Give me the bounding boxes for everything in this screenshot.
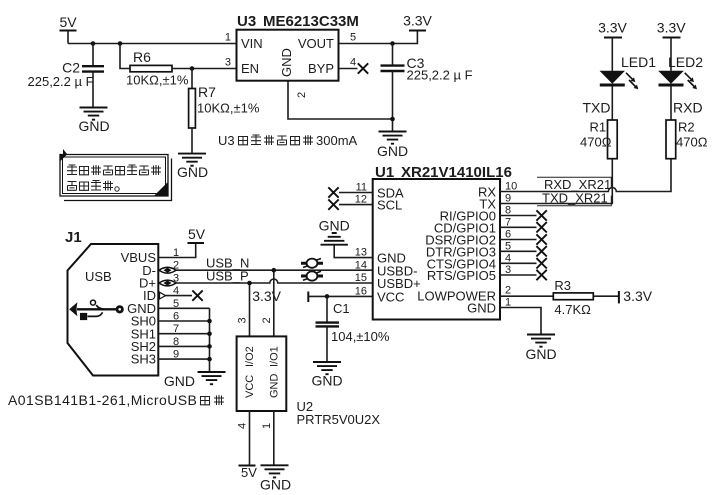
pin names U1 left — [377, 186, 421, 305]
LED LED1 — [600, 54, 657, 89]
power 3.3V (LED1) — [598, 20, 627, 38]
pin names U1 right — [417, 185, 496, 316]
junction SH3 — [207, 357, 212, 362]
wire GND pin13 — [334, 245, 373, 258]
wire LED2 cathode to R2 — [670, 87, 672, 121]
svg-text:3.3V: 3.3V — [252, 288, 281, 304]
pin numbers U1 right — [505, 181, 517, 309]
svg-text:USB: USB — [85, 269, 112, 284]
wire U2 pin2 vertical — [273, 270, 275, 336]
wire U3 pin2 to gnd rail — [288, 81, 393, 119]
svg-text:I/O2: I/O2 — [244, 346, 256, 367]
svg-text:LED1: LED1 — [621, 54, 656, 70]
wire U2 pin3 vertical — [249, 283, 251, 336]
wire R7 upper lead — [191, 69, 193, 89]
svg-text:LED2: LED2 — [668, 54, 703, 70]
svg-text:3.3V: 3.3V — [657, 20, 686, 36]
svg-text:VCC: VCC — [244, 375, 256, 398]
svg-text:J1: J1 — [65, 229, 82, 246]
svg-text:GND: GND — [177, 164, 208, 180]
power 5V (top-left) — [59, 14, 77, 31]
wire LED1 cathode to R1 — [611, 87, 613, 121]
wire C1 upper lead — [326, 296, 328, 321]
resistor R6 — [130, 49, 172, 72]
svg-text:GND: GND — [467, 301, 496, 316]
ground GND (U2) — [260, 465, 291, 492]
capacitor C1 — [316, 301, 350, 326]
wire C2 lower lead — [92, 72, 94, 108]
svg-text:225,2.2 µ F: 225,2.2 µ F — [407, 68, 473, 83]
svg-text:4: 4 — [237, 423, 249, 429]
svg-text:GND: GND — [525, 346, 556, 362]
svg-text:2: 2 — [261, 317, 273, 323]
svg-text:C1: C1 — [333, 301, 350, 316]
svg-text:RTS/GPIO5: RTS/GPIO5 — [427, 268, 496, 283]
wire C3 lower lead — [392, 71, 394, 131]
svg-text:SH3: SH3 — [131, 352, 156, 367]
junction R7 top — [190, 66, 195, 71]
wire C3 upper lead — [392, 44, 394, 65]
power 5V inverted (U2) — [239, 465, 258, 480]
svg-text:5: 5 — [350, 32, 356, 44]
junction C1 — [325, 294, 330, 299]
wire LED2 anode — [670, 38, 672, 71]
power 3.3V (U3 out) — [403, 13, 432, 31]
ground GND (J1 shield) — [164, 372, 226, 389]
ground GND (R7) — [177, 154, 208, 180]
svg-text:U3: U3 — [218, 133, 235, 148]
wire SCL stub — [339, 204, 373, 206]
junction gnd rail / C3 — [390, 117, 395, 122]
svg-text:VOUT: VOUT — [298, 36, 334, 51]
svg-text:USB_P: USB_P — [206, 269, 249, 284]
svg-text:3.3V: 3.3V — [598, 20, 627, 36]
svg-text:R7: R7 — [198, 84, 216, 100]
svg-text:A01SB141B1-261,MicroUSB: A01SB141B1-261,MicroUSB — [8, 392, 197, 408]
svg-text:14: 14 — [355, 259, 367, 271]
svg-text:225,2.2 µ F: 225,2.2 µ F — [28, 74, 94, 89]
svg-text:5V: 5V — [59, 14, 77, 30]
svg-text:300mA: 300mA — [316, 133, 358, 148]
resistor R3 — [553, 278, 593, 300]
svg-text:GND: GND — [377, 143, 408, 159]
ground GND (U3/C3) — [377, 132, 408, 160]
capacitor C3 — [381, 55, 425, 71]
wire LED1 anode — [611, 38, 613, 71]
svg-text:4: 4 — [350, 57, 356, 69]
wire SH1 — [158, 333, 209, 335]
IC U1 body — [373, 179, 500, 320]
svg-text:R3: R3 — [554, 278, 571, 293]
svg-text:ME6213C33M: ME6213C33M — [263, 13, 359, 30]
svg-text:EN: EN — [241, 61, 259, 76]
wire U2 pin4 vertical — [249, 411, 251, 466]
no-connect SCL — [328, 199, 338, 209]
svg-text:GND: GND — [78, 118, 109, 134]
svg-text:3.3V: 3.3V — [403, 13, 432, 29]
IC U2 body — [237, 336, 287, 411]
IC U3 body — [237, 30, 339, 81]
net label TXD_XR21 — [537, 191, 611, 206]
wire RX / RXD_XR21 with hop — [500, 159, 671, 192]
svg-text:GND: GND — [279, 48, 294, 77]
svg-text:470Ω: 470Ω — [676, 135, 708, 150]
wire D- / USB_N — [158, 269, 372, 271]
power 5V (J1) — [188, 226, 206, 243]
wire R3 to 3.3V — [593, 295, 619, 297]
svg-text:5V: 5V — [188, 226, 206, 242]
svg-text:15: 15 — [355, 272, 367, 284]
power 3.3V rotated (VCC) — [252, 288, 308, 304]
wire U2 pin1 vertical — [273, 411, 275, 465]
svg-text:16: 16 — [355, 285, 367, 297]
wire VOUT to 3.3V — [339, 31, 418, 44]
svg-text:BYP: BYP — [308, 61, 334, 76]
wire 5V stub — [67, 31, 69, 44]
no-connect BYP — [358, 63, 368, 73]
svg-text:TXD_XR21: TXD_XR21 — [542, 191, 608, 206]
junction C3 top — [390, 41, 395, 46]
resistor R1 — [590, 120, 618, 159]
connector J1 body — [68, 244, 159, 376]
note box (decoupling cap note) — [60, 149, 172, 201]
note text U3 output current (CJK drawn as glyphs) — [218, 133, 358, 148]
wire 5V rail to U3 VIN — [68, 43, 237, 45]
svg-text:1: 1 — [225, 32, 231, 44]
svg-text:3.3V: 3.3V — [623, 288, 652, 304]
svg-text:PRTR5V0U2X: PRTR5V0U2X — [297, 412, 381, 427]
svg-text:104,±10%: 104,±10% — [331, 329, 390, 344]
wire ID stub — [158, 295, 192, 297]
svg-text:TXD: TXD — [583, 100, 611, 116]
svg-text:R6: R6 — [133, 49, 151, 65]
svg-text:U3: U3 — [237, 13, 256, 30]
net label RXD_XR21 — [537, 177, 611, 192]
pin numbers J1 — [173, 247, 179, 361]
wire R7 lower lead — [191, 128, 193, 154]
wires right stubs pins 8-3 — [500, 216, 537, 276]
wire R6 to EN — [172, 68, 237, 70]
junction SH1 — [207, 331, 212, 336]
svg-text:10KΩ,±1%: 10KΩ,±1% — [126, 73, 189, 88]
svg-text:GND: GND — [319, 218, 350, 234]
svg-text:RXD: RXD — [673, 100, 703, 116]
ESD bead symbol on USBD- — [301, 259, 323, 268]
power 3.3V rotated (R3) — [619, 288, 653, 304]
junction C2 top — [91, 41, 96, 46]
note text A01SB141B1-261,MicroUSB socket — [8, 392, 224, 408]
LED LED2 — [658, 54, 703, 89]
wire C2 upper lead — [92, 44, 94, 66]
no-connect GPIO pins — [536, 210, 546, 280]
svg-text:GND: GND — [311, 373, 342, 389]
power 3.3V (LED2) — [657, 20, 686, 38]
wire D+ / USB_P with hop — [158, 279, 372, 283]
svg-text:VCC: VCC — [377, 289, 404, 304]
wire 3.3V to VCC pin16 — [308, 295, 372, 297]
svg-text:GND: GND — [164, 373, 195, 389]
USB icon — [69, 300, 124, 320]
wire SH0 — [158, 320, 209, 322]
pin numbers U1 left — [355, 182, 367, 298]
resistor R7 — [189, 84, 217, 128]
svg-text:1: 1 — [261, 423, 273, 429]
no-connect ID — [192, 290, 202, 300]
ground GND (U1 pin1) — [525, 335, 556, 363]
no-connect SDA — [328, 187, 338, 197]
svg-text:5V: 5V — [241, 465, 257, 480]
svg-text:2: 2 — [296, 92, 308, 98]
ground GND inverted (pin13) — [319, 218, 350, 245]
svg-text:4.7KΩ: 4.7KΩ — [554, 302, 591, 317]
wire GND pin J1 — [158, 307, 209, 309]
svg-text:2: 2 — [505, 285, 511, 297]
wire U1 pin1 GND — [500, 308, 541, 335]
wire VBUS to 5V — [158, 243, 195, 258]
junction SH2 — [207, 344, 212, 349]
svg-text:GND: GND — [260, 477, 291, 493]
svg-text:3: 3 — [225, 57, 231, 69]
resistor R2 — [666, 120, 695, 159]
ground GND (C1) — [311, 362, 342, 389]
svg-text:VIN: VIN — [241, 36, 263, 51]
svg-text:SCL: SCL — [377, 198, 402, 213]
svg-text:R1: R1 — [590, 120, 607, 135]
svg-text:470Ω: 470Ω — [580, 135, 612, 150]
svg-text:R2: R2 — [678, 120, 695, 135]
wire SH3 — [158, 358, 209, 360]
junction SH0 — [207, 319, 212, 324]
ESD bead symbol on USBD+ — [301, 271, 323, 280]
lens symbol D+ — [159, 280, 176, 286]
ID pin arrow — [160, 292, 166, 299]
wire SH2 — [158, 345, 209, 347]
junction USB_N / pin2 — [272, 268, 277, 273]
wire C1 lower lead — [326, 326, 328, 361]
svg-text:GND: GND — [269, 374, 281, 399]
wire SDA stub — [339, 192, 373, 194]
junction USB_P / pin3 — [247, 281, 252, 286]
ground GND (C2) — [78, 108, 109, 135]
svg-text:10KΩ,±1%: 10KΩ,±1% — [197, 101, 260, 116]
junction R6 top — [118, 41, 123, 46]
wire shield bus vertical — [209, 308, 211, 371]
lens symbol D- — [159, 267, 176, 273]
svg-text:I/O1: I/O1 — [269, 346, 281, 367]
wire TX / TXD_XR21 — [500, 159, 612, 204]
wire BYP stub — [339, 68, 358, 70]
capacitor C2 — [62, 60, 104, 76]
svg-text:3: 3 — [237, 317, 249, 323]
wire LOWPOWER to R3 — [500, 295, 553, 297]
wire R6 branch drop — [120, 44, 130, 69]
